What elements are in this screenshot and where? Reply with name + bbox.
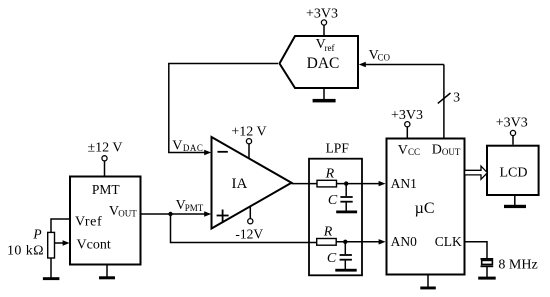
svg-text:PMT: PMT (185, 203, 204, 213)
svg-text:3: 3 (453, 90, 460, 105)
svg-text:OUT: OUT (118, 209, 137, 219)
svg-text:V: V (398, 143, 408, 158)
svg-text:µC: µC (415, 200, 435, 217)
svg-text:10 kΩ: 10 kΩ (7, 243, 44, 258)
svg-text:AN0: AN0 (391, 234, 417, 249)
svg-text:±12 V: ±12 V (87, 141, 122, 156)
svg-text:8 MHz: 8 MHz (498, 258, 537, 273)
svg-text:CC: CC (408, 147, 420, 157)
svg-text:OUT: OUT (442, 147, 461, 157)
svg-text:CO: CO (378, 52, 391, 62)
svg-text:+3V3: +3V3 (306, 7, 338, 22)
svg-text:LCD: LCD (500, 165, 528, 180)
svg-text:AN1: AN1 (391, 176, 417, 191)
svg-text:+3V3: +3V3 (391, 108, 423, 123)
svg-text:IA: IA (231, 176, 247, 192)
svg-text:DAC: DAC (183, 143, 204, 153)
svg-text:DAC: DAC (307, 55, 340, 72)
svg-text:D: D (432, 142, 442, 157)
svg-text:R: R (323, 224, 333, 239)
svg-text:P: P (32, 226, 41, 241)
svg-text:Vcont: Vcont (77, 238, 111, 253)
svg-text:C: C (328, 193, 338, 208)
svg-text:V: V (172, 138, 182, 153)
svg-text:ref: ref (325, 43, 335, 53)
svg-text:CLK: CLK (435, 234, 462, 249)
svg-text:+3V3: +3V3 (496, 115, 528, 130)
svg-text:C: C (327, 251, 337, 266)
svg-text:R: R (325, 166, 335, 181)
svg-text:+12 V: +12 V (231, 124, 266, 139)
svg-text:LPF: LPF (326, 141, 350, 156)
svg-text:-12V: -12V (235, 226, 263, 241)
svg-text:PMT: PMT (92, 182, 121, 197)
svg-text:Vref: Vref (75, 214, 102, 229)
